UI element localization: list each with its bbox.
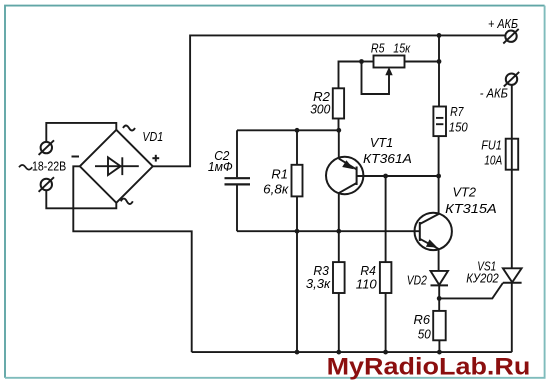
junction dot bottom rail R6 (437, 350, 442, 355)
resistor R1 vertical line top (296, 130, 298, 164)
svg-text:VT1: VT1 (370, 136, 393, 150)
junction dot VT1 collector / R3 top (336, 229, 341, 234)
wire: R4 vertical from VT1 base junction (385, 176, 387, 262)
resistor R3 lead top (338, 231, 340, 262)
junction dot bottom rail R1 (295, 350, 300, 355)
resistor R6 lead top (438, 298, 440, 311)
svg-text:1мФ: 1мФ (208, 160, 233, 174)
capacitor C2 plates (225, 177, 251, 179)
VT2 collector line (420, 214, 439, 224)
VT2 base bar (419, 222, 421, 241)
junction dot bottom rail R4 (383, 350, 388, 355)
junction dot R5 left (359, 59, 364, 64)
wire: top input terminal to bridge top vertex (46, 123, 116, 142)
wire: R3 bottom lead (338, 293, 340, 352)
svg-text:MyRadioLab.Ru: MyRadioLab.Ru (327, 354, 531, 381)
resistor R7 body (433, 107, 446, 137)
thyristor VS1 triangle (503, 268, 522, 282)
svg-text:- АКБ: - АКБ (480, 87, 508, 101)
resistor R3 body (333, 262, 345, 293)
VT1 emitter line (339, 159, 357, 170)
svg-text:КТ361А: КТ361А (363, 152, 412, 166)
resistor R4 body (380, 262, 392, 293)
thyristor VS1 cathode bar (503, 282, 522, 284)
svg-text:18-22В: 18-22В (32, 160, 66, 174)
terminal input top (39, 140, 54, 155)
wire: VT1 emitter from junction (338, 130, 340, 158)
VT2 emitter arrow (NPN away from base) (426, 239, 438, 247)
svg-text:FU1: FU1 (481, 138, 502, 152)
wire: VT1 collector down to horizontal wire (338, 193, 340, 231)
terminal +AKB (503, 29, 518, 44)
wire: R6 bottom lead (438, 340, 440, 352)
wire: top rail branch down to R5 right / R7 (438, 35, 440, 106)
junction dot R1 top (295, 128, 300, 133)
svg-text:R4: R4 (360, 264, 376, 278)
fuse FU1 body (506, 139, 519, 170)
svg-text:R1: R1 (271, 168, 288, 182)
junction dot R5 right (437, 59, 442, 64)
wire: bridge minus output down and right to bottom rail (73, 166, 191, 352)
svg-text:110: 110 (356, 277, 377, 291)
tilde of input voltage label (19, 165, 32, 170)
svg-text:10А: 10А (484, 154, 502, 168)
svg-text:КУ202: КУ202 (466, 271, 499, 285)
wire: horizontal C2 top to VT1 emitter junction (237, 129, 339, 131)
svg-text:R3: R3 (313, 264, 329, 278)
tilde mark top of bridge (123, 126, 135, 131)
svg-text:R5: R5 (371, 42, 385, 56)
svg-text:+ АКБ: + АКБ (488, 17, 518, 31)
plus sign at bridge (152, 157, 159, 159)
wire: R5 wiper loop to left junction (362, 62, 390, 95)
wire: VD2 to junction (438, 285, 440, 298)
svg-text:R6: R6 (414, 313, 431, 327)
junction dot VT1 base / R4 (383, 174, 388, 179)
R5 wiper arrow (385, 67, 392, 75)
diode VD2 cathode bar (431, 284, 449, 286)
wire: VT1 base to right (357, 175, 439, 177)
svg-text:КТ315А: КТ315А (445, 202, 497, 216)
wire: R5 junction left to R2 top (339, 62, 362, 89)
VT1 base bar (356, 167, 358, 186)
R7 power marks (436, 117, 443, 119)
VT2 emitter line (420, 239, 439, 249)
wire: horizontal C2 bottom to VT2 base (237, 230, 420, 232)
wire: R1 bottom down to bottom rail (296, 196, 298, 352)
diode VD2 triangle (431, 271, 449, 285)
VT1 emitter arrow (PNP into base) (342, 160, 354, 169)
wire: gate wire from VD2 junction to VS1 (439, 283, 503, 299)
resistor R1 body (292, 165, 303, 197)
junction dot bottom rail R3 (336, 350, 341, 355)
VT1 collector line (339, 183, 357, 193)
svg-text:VT2: VT2 (453, 185, 477, 199)
wire: VT2 emitter down to VD2 (438, 249, 440, 271)
capacitor C2 top lead (236, 130, 238, 177)
terminal -AKB (504, 72, 519, 87)
wire: R7 bottom to VT2 collector (438, 136, 440, 214)
resistor R2 body (333, 88, 344, 118)
capacitor C2 bottom lead (236, 186, 238, 232)
wire: R5 right lead (405, 61, 440, 63)
transistor VT2 circle (415, 213, 452, 250)
svg-text:6,8к: 6,8к (263, 182, 289, 196)
diode symbol inside VD1 (95, 165, 139, 167)
svg-text:R7: R7 (450, 105, 464, 119)
junction dot R2 bottom / VT1 emitter (336, 128, 341, 133)
junction dot R7 bottom / VT2 collector (436, 174, 441, 179)
wire: bottom input terminal to bridge bottom vertex (46, 190, 116, 208)
wire: bottom rail (192, 351, 512, 353)
transistor VT1 circle (326, 157, 363, 194)
wire: bridge plus output up to top rail (153, 35, 506, 166)
minus sign at bridge (72, 156, 80, 158)
svg-text:50: 50 (418, 327, 431, 341)
junction dot VD2 cathode / R6 / gate (437, 296, 442, 301)
junction dot top rail / R5-R7 branch (437, 33, 442, 38)
bridge rectifier VD1 diamond (80, 130, 153, 203)
wire: R4 bottom lead (385, 293, 387, 352)
wire: right vertical minus AKB to FU1 to VS1 to bottom rail (511, 85, 513, 269)
wire: R2 bottom lead (338, 119, 340, 131)
svg-text:150: 150 (449, 121, 468, 135)
tilde mark bottom of bridge (121, 199, 133, 204)
resistor R6 body (433, 311, 446, 340)
terminal input bottom (39, 177, 54, 192)
svg-text:3,3к: 3,3к (306, 277, 331, 291)
junction dot R1 mid wire (295, 229, 300, 234)
svg-text:300: 300 (310, 103, 330, 117)
potentiometer R5 body (374, 56, 405, 68)
svg-text:VD2: VD2 (407, 274, 427, 288)
wire: R5 left lead (362, 61, 374, 63)
svg-text:VD1: VD1 (142, 130, 163, 144)
svg-text:15к: 15к (393, 42, 411, 56)
